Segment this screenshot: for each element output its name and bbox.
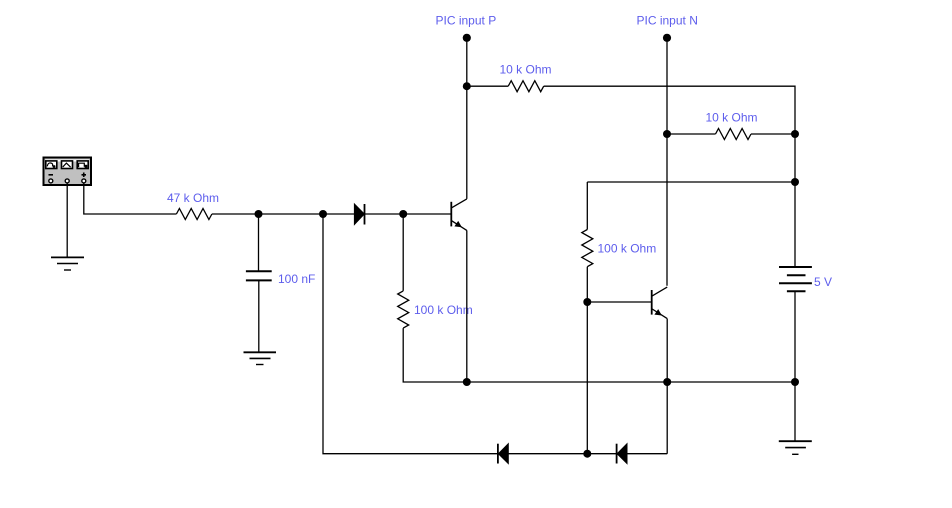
- wire D4 to corner up: [627, 453, 667, 455]
- ground bottom right: [779, 441, 812, 454]
- wire 587 vertical top to 100k: [586, 182, 588, 230]
- wire Q1 collector up to node: [466, 38, 468, 199]
- node junction 10k right rail: [791, 130, 799, 138]
- wire battery bottom to ground: [794, 291, 796, 441]
- diode D1: [354, 204, 364, 225]
- capacitor 100 nF: [246, 271, 272, 280]
- wire generator middle terminal to ground: [66, 183, 68, 257]
- svg-text:10 k Ohm: 10 k Ohm: [706, 111, 758, 125]
- wire diode to transistor base: [365, 213, 452, 215]
- resistor 47 k Ohm: [176, 209, 212, 220]
- node junction battery lower rail: [791, 378, 799, 386]
- wire long vertical from node 322 to bottom rail: [323, 214, 498, 454]
- svg-text:100 k Ohm: 100 k Ohm: [414, 303, 473, 317]
- wire Q1 emitter down to lower rail: [466, 230, 468, 382]
- wire mid rail from 587 to right vertical: [587, 181, 795, 183]
- svg-text:47 k Ohm: 47 k Ohm: [167, 191, 219, 205]
- node junction at 258: [255, 210, 263, 218]
- node junction at 402: [399, 210, 407, 218]
- node junction bottom rail 587: [583, 450, 591, 458]
- terminal PIC input P: [463, 34, 471, 42]
- wire node 402 down to 100k resistor: [402, 214, 404, 291]
- battery 5 V: [779, 267, 812, 291]
- node junction mid rail right: [791, 178, 799, 186]
- function generator V1: [44, 158, 92, 186]
- node junction Q2 emitter lower rail: [663, 378, 671, 386]
- resistor 100 k Ohm left: [398, 291, 409, 328]
- diode D3: [498, 444, 508, 464]
- node junction N 10k left: [663, 130, 671, 138]
- transistor Q2: [652, 287, 668, 319]
- wire Q2 emitter down to lower rail: [666, 319, 668, 454]
- wire D3 to D4: [508, 453, 616, 455]
- wire junction to capacitor: [258, 214, 260, 271]
- svg-text:5 V: 5 V: [814, 275, 832, 289]
- svg-text:100 k Ohm: 100 k Ohm: [598, 242, 657, 256]
- node junction top rail P: [463, 82, 471, 90]
- wire resistor to diode: [212, 213, 355, 215]
- wire PIC input N vertical: [666, 38, 668, 286]
- ground below capacitor: [244, 352, 277, 364]
- node junction base Q2: [583, 298, 591, 306]
- wire top rail to right edge: [544, 86, 795, 267]
- svg-text:10 k Ohm: 10 k Ohm: [500, 63, 552, 77]
- wire N node to 10k resistor right: [667, 133, 716, 135]
- terminal PIC input N: [663, 34, 671, 42]
- resistor 10 k Ohm top: [508, 81, 544, 92]
- wire 10k right to right vertical: [751, 133, 795, 135]
- wire 100k right bottom down to bottom rail: [586, 267, 588, 454]
- node junction emitter lower rail: [463, 378, 471, 386]
- resistor 100 k Ohm right: [582, 230, 593, 267]
- wire capacitor to ground: [258, 280, 260, 352]
- ground below generator: [51, 257, 84, 270]
- wire base node to Q2: [587, 301, 651, 303]
- wire generator plus terminal down and right: [84, 183, 177, 214]
- wire top rail from node P to right vertical: [467, 85, 508, 87]
- svg-text:PIC input N: PIC input N: [637, 14, 698, 28]
- svg-text:100 nF: 100 nF: [278, 272, 315, 286]
- svg-text:PIC input P: PIC input P: [436, 14, 497, 28]
- resistor 10 k Ohm right: [716, 129, 752, 140]
- diode D4: [617, 444, 627, 464]
- wire 100k bottom to lower rail: [403, 328, 795, 382]
- transistor Q1: [451, 199, 467, 231]
- node junction at 322: [319, 210, 327, 218]
